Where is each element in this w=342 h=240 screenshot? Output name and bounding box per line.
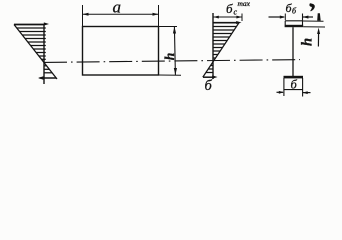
stress diagram 2: top edge arrowhead <box>236 21 241 24</box>
svg-text:б: б <box>226 1 233 16</box>
stress diagram 2: vertical edge <box>212 13 214 79</box>
stress diagram 2: bottom edge arrowhead (points right) <box>212 75 217 78</box>
svg-text:h: h <box>162 53 177 61</box>
stress diagram 1: bottom edge arrowhead (points left) <box>38 76 43 79</box>
svg-text:б: б <box>205 78 213 94</box>
dimension a: left arrowhead <box>83 13 89 16</box>
svg-text:h: h <box>300 38 316 46</box>
flange width dim: left arrow <box>269 16 285 18</box>
dimension h: top extension line <box>159 26 178 28</box>
stress diagram 1: vertical edge <box>43 24 45 84</box>
dimension a: left extension line <box>82 5 84 27</box>
stress diagram 2: right extension tick <box>241 14 243 22</box>
stress diagram 2: bottom edge <box>203 76 214 78</box>
stress diagram 1: hatch lines below axis <box>44 66 52 73</box>
stress diagram 1: bottom edge <box>40 77 57 79</box>
top flange rectangle <box>285 20 303 22</box>
beam cross-section rectangle <box>83 27 159 76</box>
dimension a: right arrowhead <box>153 13 159 16</box>
top flange top edge extension <box>303 20 324 22</box>
svg-text:с: с <box>234 8 238 17</box>
web line <box>292 27 294 76</box>
neutral axis (dash-dot center line) <box>44 60 300 63</box>
bottom flange left edge <box>283 78 285 96</box>
idealized section: comma mark <box>310 4 315 11</box>
svg-text:a: a <box>113 0 122 17</box>
svg-text:б: б <box>291 78 298 92</box>
bottom flange thick top bar <box>284 76 304 79</box>
section height dim: up arrow below flange <box>317 28 320 34</box>
flange width dim: left tick <box>284 14 286 21</box>
stress diagram 2: top edge <box>213 22 237 24</box>
stress diagram 1: hatch lines above axis <box>17 28 46 59</box>
top flange thick bottom bar <box>285 25 304 27</box>
dimension h: bottom extension line <box>159 74 182 76</box>
top flange bottom edge extension <box>303 26 325 28</box>
dimension h: top arrowhead <box>173 27 176 34</box>
stress diagram 2: hypotenuse <box>203 23 239 77</box>
flange width dim: right arrow <box>303 16 313 18</box>
stress diagram 2: sigma_c dimension line <box>213 16 242 18</box>
stress diagram 2: hatch lines below axis <box>206 66 213 73</box>
stress diagram 2: sigma_c dim right arrowhead <box>236 16 242 19</box>
bottom flange bottom edge <box>284 89 303 91</box>
dimension h: bottom arrowhead <box>174 68 177 75</box>
bottom flange right edge <box>302 78 304 97</box>
svg-text:max: max <box>238 0 251 8</box>
bottom width dim: left arrow <box>277 91 284 93</box>
stress diagram 2: hatch lines above axis <box>213 27 237 59</box>
bottom width dim: right arrow <box>303 92 311 94</box>
section height dim: shaft <box>317 31 319 47</box>
stress diagram 2: sigma_c dim left arrowhead <box>213 16 219 19</box>
section height dim: upper wedge arrow <box>317 13 321 21</box>
stress diagram 1: top edge <box>14 24 45 26</box>
dimension h: dimension line <box>174 27 175 76</box>
dimension a: dimension line <box>83 13 159 15</box>
stress diagram 1: hypotenuse <box>14 25 57 80</box>
dimension a: right extension line <box>158 5 160 27</box>
stress diagram 1: top edge arrowhead <box>44 22 49 25</box>
